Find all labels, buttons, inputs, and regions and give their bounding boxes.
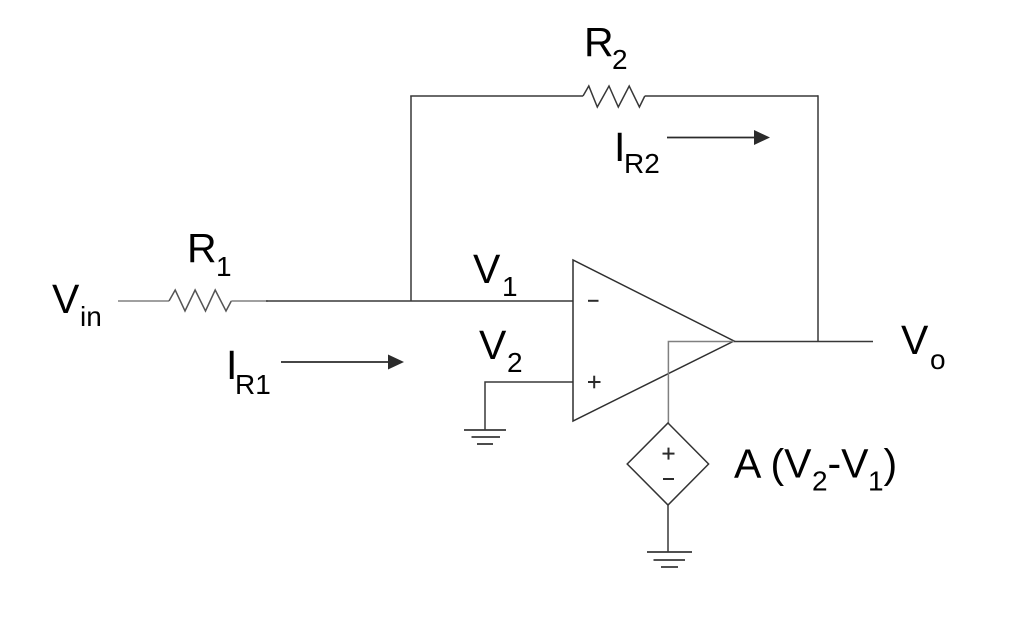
- op-amp U1: [573, 260, 734, 421]
- wire feedback right vertical: [817, 95, 819, 341]
- label Vo: [901, 317, 946, 375]
- svg-text:V: V: [901, 317, 929, 363]
- label R2: [584, 19, 628, 75]
- wire Vin lead to R1: [118, 300, 169, 302]
- wire R1 tail: [231, 300, 268, 302]
- op-amp inverting marker: [588, 300, 599, 302]
- wire feedback top right: [645, 95, 818, 97]
- svg-text:-V: -V: [828, 441, 870, 487]
- svg-text:R1: R1: [235, 369, 271, 400]
- wire feedback left vertical: [410, 96, 412, 302]
- wire input node to inverting input: [266, 300, 573, 302]
- svg-text:2: 2: [612, 44, 628, 75]
- svg-text:in: in: [80, 301, 102, 332]
- ground (non-inverting input): [464, 430, 506, 444]
- svg-text:R: R: [187, 225, 217, 271]
- svg-text:V: V: [473, 246, 501, 292]
- label V1: [473, 246, 518, 302]
- svg-text:1: 1: [216, 251, 232, 282]
- svg-text:): ): [884, 441, 898, 487]
- resistor R1: [169, 290, 231, 311]
- current arrow IR1: [281, 355, 404, 370]
- svg-text:1: 1: [502, 271, 518, 302]
- wire feedback top left: [410, 95, 583, 97]
- label IR1: [226, 342, 271, 400]
- svg-text:R: R: [584, 19, 614, 65]
- svg-text:V: V: [479, 322, 507, 368]
- svg-text:2: 2: [507, 347, 523, 378]
- ground (dependent source): [647, 552, 692, 567]
- svg-text:1: 1: [868, 466, 884, 497]
- current arrow IR2: [667, 130, 770, 145]
- dependent source A(V2-V1): [627, 423, 708, 505]
- label IR2: [614, 124, 660, 179]
- wire output: [734, 341, 873, 343]
- resistor R2: [583, 86, 645, 107]
- svg-text:A (V: A (V: [734, 441, 812, 487]
- svg-text:o: o: [930, 344, 946, 375]
- label Vin: [52, 276, 102, 332]
- op-amp non-inverting marker: [588, 376, 601, 389]
- svg-text:2: 2: [812, 466, 828, 497]
- label R1: [187, 225, 232, 282]
- wire dependent source to ground: [667, 505, 669, 552]
- label A (V2-V1): [734, 441, 897, 497]
- svg-text:V: V: [52, 276, 80, 322]
- svg-text:R2: R2: [624, 148, 660, 179]
- label V2: [479, 322, 523, 378]
- wire dependent source to output: [668, 342, 734, 424]
- wire non-inverting input: [485, 382, 573, 430]
